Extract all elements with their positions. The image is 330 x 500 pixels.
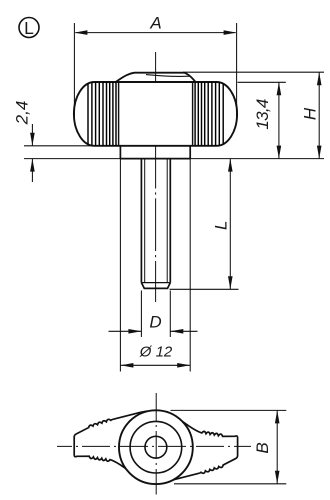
svg-text:2,4: 2,4: [12, 101, 31, 126]
svg-text:A: A: [149, 13, 161, 32]
svg-text:D: D: [149, 313, 161, 332]
svg-text:L: L: [212, 221, 231, 230]
svg-text:L: L: [24, 18, 34, 38]
svg-text:B: B: [253, 442, 272, 453]
svg-text:Ø 12: Ø 12: [139, 344, 173, 361]
svg-text:13,4: 13,4: [253, 99, 272, 130]
svg-text:H: H: [301, 107, 320, 120]
